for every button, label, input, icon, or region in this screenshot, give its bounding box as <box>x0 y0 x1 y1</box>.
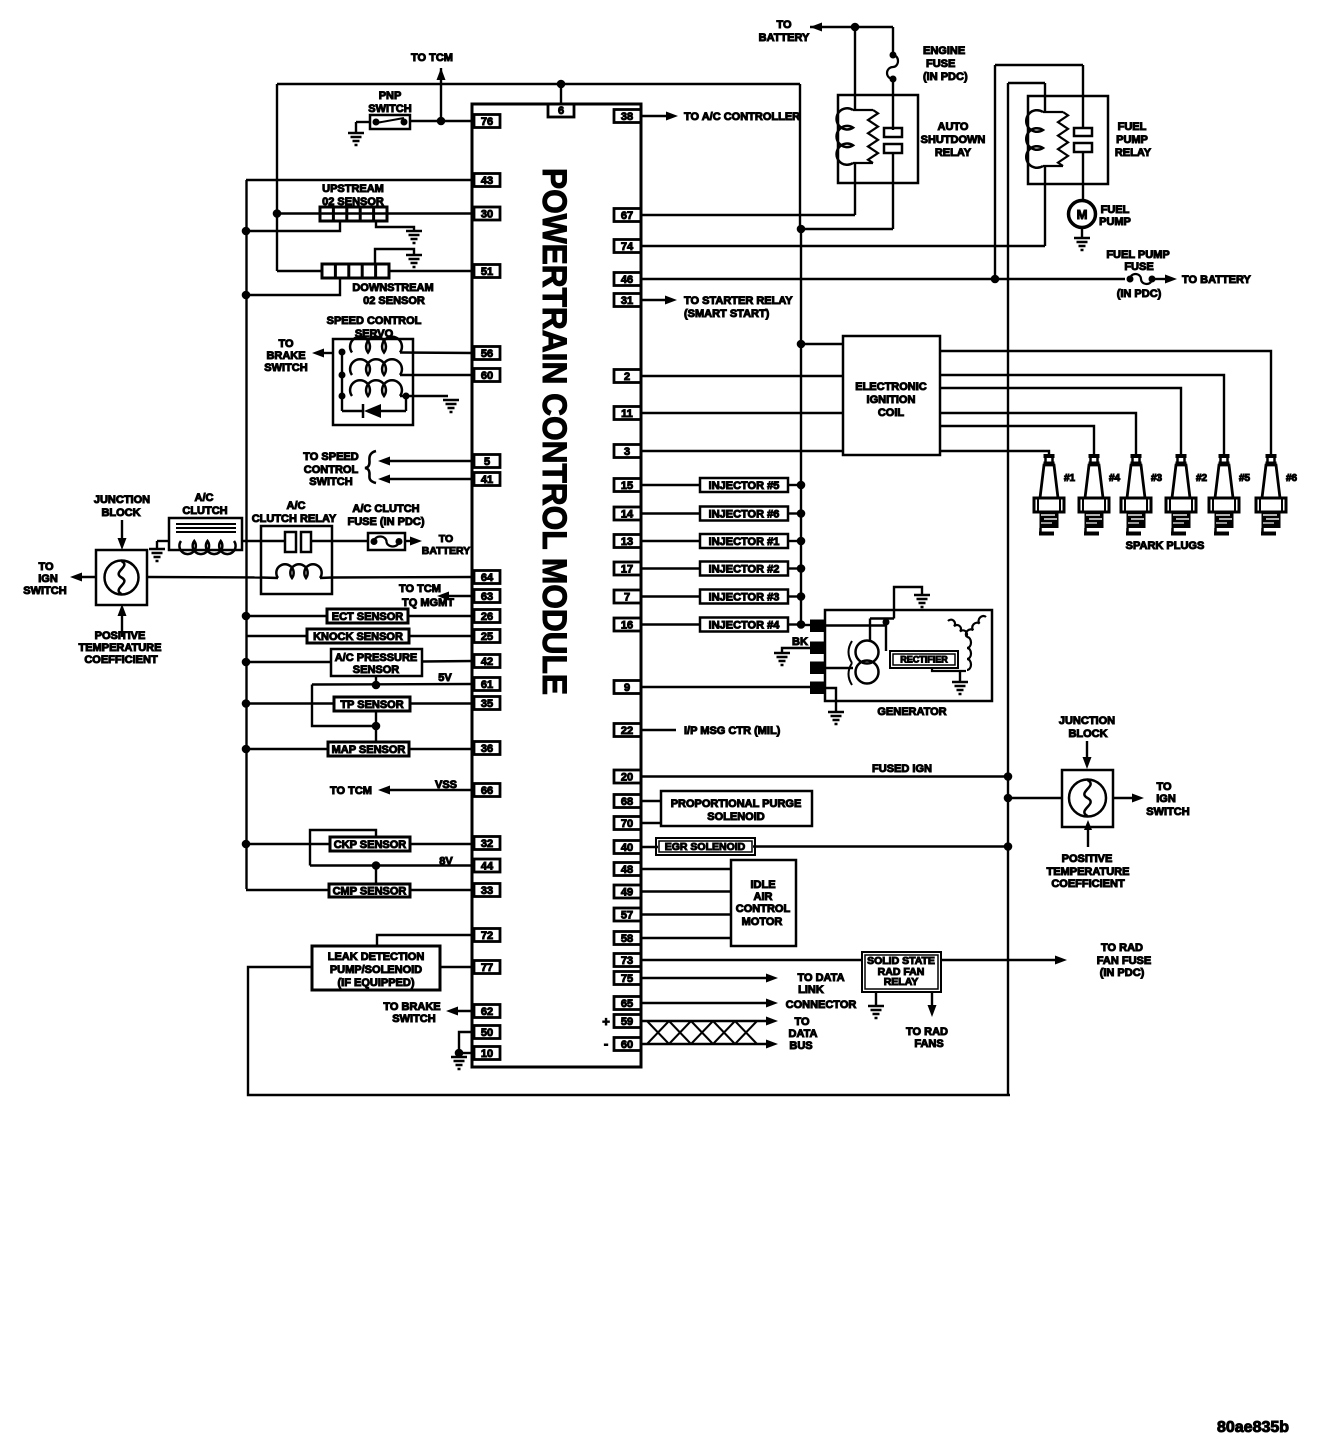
svg-text:(SMART START): (SMART START) <box>684 308 770 320</box>
svg-text:6: 6 <box>558 105 564 117</box>
svg-text:SOLENOID: SOLENOID <box>707 811 765 823</box>
svg-text:TQ MGMT: TQ MGMT <box>402 597 454 609</box>
svg-text:TO SPEED: TO SPEED <box>303 451 358 463</box>
svg-text:67: 67 <box>621 210 633 222</box>
svg-text:20: 20 <box>621 772 633 784</box>
svg-text:(IF EQUIPPED): (IF EQUIPPED) <box>337 977 414 989</box>
svg-text:TO DATA: TO DATA <box>797 972 844 984</box>
svg-text:46: 46 <box>621 274 633 286</box>
svg-text:7: 7 <box>624 592 630 604</box>
svg-text:76: 76 <box>481 116 493 128</box>
svg-text:SWITCH: SWITCH <box>368 103 411 115</box>
svg-text:+: + <box>602 1014 610 1029</box>
svg-text:A/C: A/C <box>195 492 214 504</box>
svg-text:43: 43 <box>481 175 493 187</box>
svg-text:FUSED IGN: FUSED IGN <box>872 763 932 775</box>
svg-text:FANS: FANS <box>914 1038 943 1050</box>
svg-text:TO: TO <box>38 561 54 573</box>
svg-text:ELECTRONIC: ELECTRONIC <box>855 381 927 393</box>
svg-text:5: 5 <box>484 456 490 468</box>
svg-text:40: 40 <box>621 842 633 854</box>
svg-text:80ae835b: 80ae835b <box>1217 1419 1289 1436</box>
svg-text:MAP SENSOR: MAP SENSOR <box>332 744 406 756</box>
svg-text:SWITCH: SWITCH <box>392 1013 435 1025</box>
svg-text:CONTROL: CONTROL <box>736 903 791 915</box>
svg-text:RELAY: RELAY <box>1115 147 1152 159</box>
svg-text:RELAY: RELAY <box>935 147 972 159</box>
svg-text:AUTO: AUTO <box>938 121 969 133</box>
svg-text:51: 51 <box>481 266 493 278</box>
svg-text:14: 14 <box>621 509 634 521</box>
svg-text:66: 66 <box>481 785 493 797</box>
svg-text:FUEL: FUEL <box>1118 121 1147 133</box>
svg-text:FUEL PUMP: FUEL PUMP <box>1106 249 1169 261</box>
svg-text:M: M <box>1077 207 1088 222</box>
svg-text:CONNECTOR: CONNECTOR <box>786 999 857 1011</box>
svg-text:I/P MSG CTR (MIL): I/P MSG CTR (MIL) <box>684 725 781 737</box>
svg-text:32: 32 <box>481 838 493 850</box>
svg-text:59: 59 <box>621 1016 633 1028</box>
svg-text:TO STARTER RELAY: TO STARTER RELAY <box>684 295 793 307</box>
svg-text:-: - <box>604 1036 608 1051</box>
svg-text:#1: #1 <box>1064 473 1076 484</box>
svg-text:BK: BK <box>792 636 808 648</box>
svg-text:11: 11 <box>621 408 633 420</box>
svg-text:JUNCTION: JUNCTION <box>94 494 150 506</box>
svg-text:KNOCK SENSOR: KNOCK SENSOR <box>313 631 403 643</box>
svg-text:TP SENSOR: TP SENSOR <box>340 699 403 711</box>
svg-text:EGR SOLENOID: EGR SOLENOID <box>665 841 746 853</box>
svg-text:PUMP/SOLENOID: PUMP/SOLENOID <box>330 964 422 976</box>
svg-text:CMP SENSOR: CMP SENSOR <box>333 886 407 898</box>
svg-text:48: 48 <box>621 864 633 876</box>
svg-text:56: 56 <box>481 348 493 360</box>
svg-text:POSITIVE: POSITIVE <box>1062 853 1113 865</box>
svg-text:SPARK PLUGS: SPARK PLUGS <box>1126 540 1205 552</box>
svg-text:42: 42 <box>481 656 493 668</box>
svg-text:COIL: COIL <box>878 407 905 419</box>
svg-text:62: 62 <box>481 1006 493 1018</box>
svg-text:2: 2 <box>624 371 630 383</box>
svg-text:BRAKE: BRAKE <box>266 350 305 362</box>
svg-text:PUMP: PUMP <box>1116 134 1148 146</box>
svg-text:TO RAD: TO RAD <box>906 1026 948 1038</box>
svg-text:02 SENSOR: 02 SENSOR <box>363 295 425 307</box>
svg-text:BATTERY: BATTERY <box>422 545 470 557</box>
svg-text:3: 3 <box>624 446 630 458</box>
svg-text:CONTROL: CONTROL <box>304 464 359 476</box>
svg-text:35: 35 <box>481 698 493 710</box>
svg-text:TO: TO <box>1156 781 1172 793</box>
svg-text:COEFFICIENT: COEFFICIENT <box>84 654 158 666</box>
svg-text:LINK: LINK <box>798 984 824 996</box>
svg-text:INJECTOR #2: INJECTOR #2 <box>709 564 780 576</box>
svg-text:FUSE: FUSE <box>1124 261 1153 273</box>
svg-text:IGN: IGN <box>38 573 58 585</box>
svg-text:5V: 5V <box>438 672 452 684</box>
svg-text:73: 73 <box>621 955 633 967</box>
svg-text:25: 25 <box>481 631 493 643</box>
svg-text:22: 22 <box>621 725 633 737</box>
svg-text:TO: TO <box>794 1016 810 1028</box>
svg-text:UPSTREAM: UPSTREAM <box>322 183 384 195</box>
svg-text:IGNITION: IGNITION <box>867 394 916 406</box>
svg-text:JUNCTION: JUNCTION <box>1059 715 1115 727</box>
svg-text:9: 9 <box>624 682 630 694</box>
svg-text:SHUTDOWN: SHUTDOWN <box>921 134 986 146</box>
svg-text:PROPORTIONAL PURGE: PROPORTIONAL PURGE <box>671 798 802 810</box>
svg-text:#4: #4 <box>1109 473 1121 484</box>
svg-text:ECT SENSOR: ECT SENSOR <box>332 611 404 623</box>
svg-text:38: 38 <box>621 111 633 123</box>
svg-text:30: 30 <box>481 209 493 221</box>
svg-text:72: 72 <box>481 930 493 942</box>
svg-text:16: 16 <box>621 620 633 632</box>
svg-text:INJECTOR #6: INJECTOR #6 <box>709 509 780 521</box>
svg-text:A/C CLUTCH: A/C CLUTCH <box>352 503 419 515</box>
svg-text:SENSOR: SENSOR <box>353 664 400 676</box>
svg-text:SWITCH: SWITCH <box>1146 806 1189 818</box>
svg-text:TO TCM: TO TCM <box>411 52 453 64</box>
svg-text:PUMP: PUMP <box>1099 216 1131 228</box>
svg-text:RECTIFIER: RECTIFIER <box>900 655 948 665</box>
svg-text:10: 10 <box>481 1048 493 1060</box>
svg-text:(IN PDC): (IN PDC) <box>1117 288 1162 300</box>
svg-text:60: 60 <box>621 1039 633 1051</box>
svg-text:75: 75 <box>621 973 633 985</box>
svg-text:31: 31 <box>621 295 633 307</box>
svg-text:FAN FUSE: FAN FUSE <box>1097 955 1151 967</box>
svg-text:70: 70 <box>621 818 633 830</box>
svg-text:FUEL: FUEL <box>1101 204 1130 216</box>
svg-text:AIR: AIR <box>754 891 773 903</box>
svg-text:74: 74 <box>621 241 634 253</box>
svg-text:TO A/C CONTROLLER: TO A/C CONTROLLER <box>684 111 800 123</box>
svg-text:33: 33 <box>481 885 493 897</box>
svg-text:49: 49 <box>621 887 633 899</box>
svg-text:57: 57 <box>621 910 633 922</box>
svg-text:INJECTOR #4: INJECTOR #4 <box>709 620 781 632</box>
svg-text:BATTERY: BATTERY <box>759 32 810 44</box>
svg-text:77: 77 <box>481 962 493 974</box>
svg-text:A/C: A/C <box>287 500 306 512</box>
svg-text:LEAK DETECTION: LEAK DETECTION <box>328 951 425 963</box>
svg-text:TEMPERATURE: TEMPERATURE <box>79 642 162 654</box>
svg-text:15: 15 <box>621 480 633 492</box>
svg-text:CLUTCH RELAY: CLUTCH RELAY <box>252 513 337 525</box>
svg-text:BLOCK: BLOCK <box>101 507 140 519</box>
svg-text:TO BRAKE: TO BRAKE <box>383 1001 440 1013</box>
svg-text:#3: #3 <box>1151 473 1163 484</box>
svg-text:#2: #2 <box>1196 473 1208 484</box>
svg-text:(IN PDC): (IN PDC) <box>1100 967 1145 979</box>
svg-text:44: 44 <box>481 861 494 873</box>
svg-text:IGN: IGN <box>1156 793 1176 805</box>
svg-text:63: 63 <box>481 591 493 603</box>
svg-text:36: 36 <box>481 743 493 755</box>
svg-text:64: 64 <box>481 572 494 584</box>
svg-text:TEMPERATURE: TEMPERATURE <box>1047 866 1130 878</box>
svg-text:SPEED CONTROL: SPEED CONTROL <box>327 315 422 327</box>
svg-text:TO: TO <box>776 19 792 31</box>
svg-text:INJECTOR #3: INJECTOR #3 <box>709 592 780 604</box>
svg-text:CLUTCH: CLUTCH <box>182 505 227 517</box>
svg-text:26: 26 <box>481 611 493 623</box>
svg-text:DATA: DATA <box>789 1028 818 1040</box>
svg-text:CKP SENSOR: CKP SENSOR <box>334 839 407 851</box>
svg-text:POSITIVE: POSITIVE <box>95 630 146 642</box>
svg-text:DOWNSTREAM: DOWNSTREAM <box>352 282 433 294</box>
svg-text:MOTOR: MOTOR <box>742 916 783 928</box>
svg-text:SWITCH: SWITCH <box>309 476 352 488</box>
svg-text:RELAY: RELAY <box>884 976 919 988</box>
svg-text:TO: TO <box>439 533 453 545</box>
svg-text:TO RAD: TO RAD <box>1101 942 1143 954</box>
svg-text:61: 61 <box>481 679 493 691</box>
svg-text:60: 60 <box>481 370 493 382</box>
svg-text:50: 50 <box>481 1027 493 1039</box>
svg-text:A/C PRESSURE: A/C PRESSURE <box>335 652 418 664</box>
svg-text:#5: #5 <box>1239 473 1251 484</box>
svg-text:13: 13 <box>621 536 633 548</box>
svg-text:POWERTRAIN CONTROL MODULE: POWERTRAIN CONTROL MODULE <box>535 168 573 695</box>
svg-text:INJECTOR #1: INJECTOR #1 <box>709 536 780 548</box>
svg-text:TO: TO <box>278 338 294 350</box>
svg-text:58: 58 <box>621 933 633 945</box>
svg-text:PNP: PNP <box>379 90 402 102</box>
svg-text:SWITCH: SWITCH <box>264 362 307 374</box>
svg-text:TO TCM: TO TCM <box>399 583 441 595</box>
svg-text:68: 68 <box>621 796 633 808</box>
svg-text:BLOCK: BLOCK <box>1068 728 1107 740</box>
svg-text:GENERATOR: GENERATOR <box>877 706 946 718</box>
svg-text:INJECTOR #5: INJECTOR #5 <box>709 480 780 492</box>
svg-text:BUS: BUS <box>789 1040 812 1052</box>
svg-text:#6: #6 <box>1286 473 1298 484</box>
svg-text:IDLE: IDLE <box>750 879 775 891</box>
svg-text:TO TCM: TO TCM <box>330 785 372 797</box>
svg-text:TO BATTERY: TO BATTERY <box>1182 274 1252 286</box>
svg-text:FUSE (IN PDC): FUSE (IN PDC) <box>348 516 425 528</box>
svg-text:SWITCH: SWITCH <box>23 585 66 597</box>
svg-text:FUSE: FUSE <box>926 58 955 70</box>
svg-text:COEFFICIENT: COEFFICIENT <box>1051 878 1125 890</box>
svg-text:41: 41 <box>481 474 493 486</box>
svg-text:17: 17 <box>621 564 633 576</box>
svg-text:(IN PDC): (IN PDC) <box>923 71 968 83</box>
svg-text:ENGINE: ENGINE <box>923 45 965 57</box>
svg-text:65: 65 <box>621 998 633 1010</box>
